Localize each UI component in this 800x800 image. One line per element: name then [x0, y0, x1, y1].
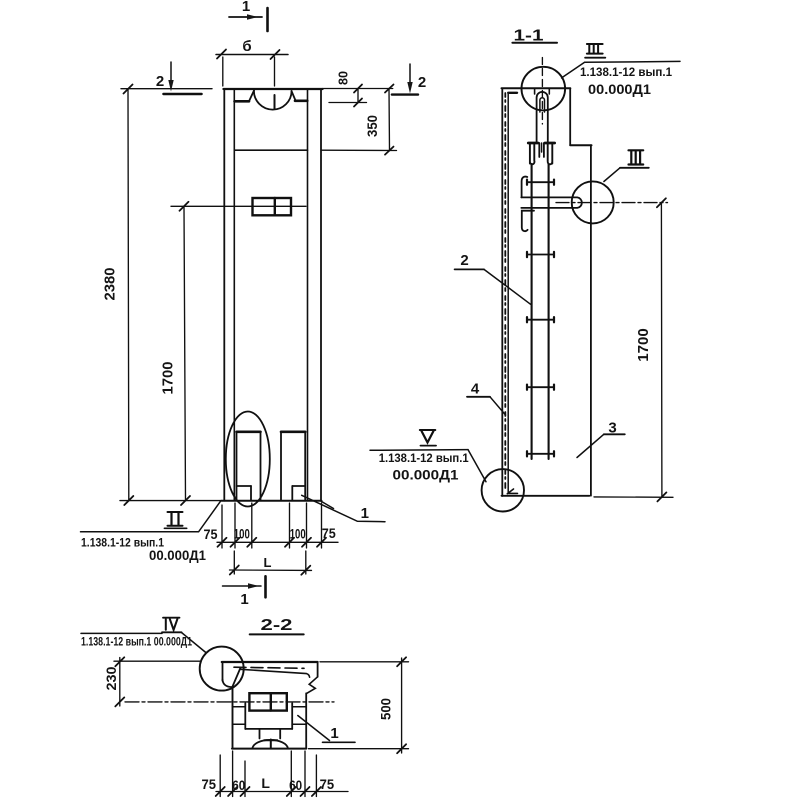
- svg-text:4: 4: [471, 381, 480, 398]
- svg-text:60: 60: [289, 777, 302, 793]
- dim 80: tick bottom: [354, 99, 362, 107]
- dim 350: tick top: [385, 85, 394, 93]
- detail circle IV: [200, 647, 244, 691]
- anchor middle strokes: [538, 143, 540, 157]
- panel top edge: [502, 87, 571, 89]
- loop leg marks: [259, 730, 261, 739]
- dim 500: bottom extension: [309, 748, 409, 750]
- label 1-1 underline: [512, 42, 557, 44]
- bottom dim row ticks: [218, 538, 327, 547]
- ladder rail left: [531, 164, 533, 459]
- svg-text:75: 75: [322, 525, 336, 541]
- anchor caps: [528, 142, 538, 145]
- svg-text:1: 1: [330, 725, 338, 742]
- dim 1700 right: bottom extension: [594, 496, 673, 498]
- leader 1 (2-2): underline: [323, 741, 356, 743]
- svg-text:1: 1: [361, 505, 369, 522]
- panel left wall inner top cap: [508, 92, 517, 94]
- top recess caret left: [249, 91, 254, 102]
- svg-text:00.000Д1: 00.000Д1: [393, 468, 460, 483]
- dim 2380: line: [127, 89, 130, 501]
- detail ellipse II: [226, 412, 270, 507]
- horizontal bar to III: [521, 197, 582, 208]
- svg-text:00.000Д1: 00.000Д1: [149, 548, 206, 563]
- label 2-2 underline: [250, 633, 304, 635]
- bottom slot right: right wall: [304, 432, 306, 501]
- bottom slot right: left wall: [280, 432, 282, 501]
- svg-text:2: 2: [460, 252, 468, 269]
- bottom slot right: step horiz: [292, 485, 305, 487]
- bottom slot left: step horiz: [237, 485, 252, 487]
- dim 1700 left: tick bottom: [181, 496, 190, 505]
- top recess band right: [295, 100, 307, 103]
- svg-text:L: L: [264, 555, 272, 570]
- center line 2-2: [125, 701, 334, 703]
- leader V diagonal: [468, 450, 486, 482]
- dim 500: line: [401, 658, 403, 753]
- leader 1 (left view): polyline: [302, 495, 385, 521]
- dim 1700 right: tick bottom: [657, 492, 666, 501]
- loop plate rect: [253, 198, 292, 215]
- panel right edge lower: [590, 145, 592, 496]
- column right flange inner: [307, 90, 309, 501]
- dimension b: tick right: [271, 50, 280, 59]
- detail circle V: [482, 469, 524, 511]
- dim 2380: top extension: [121, 88, 212, 90]
- dim 2380: tick top: [124, 85, 133, 94]
- dim 500: top extension: [320, 661, 409, 663]
- plate divider section: [270, 693, 272, 710]
- bottom dim row line: [217, 541, 338, 543]
- svg-text:75: 75: [320, 776, 335, 792]
- section right edge: [317, 662, 319, 677]
- svg-text:1.138.1-12 вып.1: 1.138.1-12 вып.1: [580, 65, 672, 79]
- dim 230: top extension: [114, 660, 200, 662]
- rung 5: [527, 451, 554, 456]
- dim 350: vertical: [388, 89, 391, 151]
- dim L: ticks: [230, 566, 239, 575]
- detail circle III right: [572, 181, 614, 223]
- extension 1700 cross line: [171, 205, 306, 207]
- center line horizontal: [556, 202, 668, 204]
- slot left section: top: [233, 706, 246, 708]
- column right flange outer: [320, 89, 322, 501]
- leader III top diagonal: [562, 62, 585, 78]
- svg-text:00.000Д1: 00.000Д1: [588, 82, 652, 97]
- label III top roman: [587, 44, 603, 54]
- top recess band left: [235, 100, 250, 103]
- svg-text:1700: 1700: [636, 328, 652, 362]
- stem left edge: [232, 687, 234, 749]
- svg-text:L: L: [261, 775, 270, 791]
- svg-text:60: 60: [232, 777, 245, 793]
- section bottom edge: [232, 748, 306, 750]
- svg-text:500: 500: [379, 698, 394, 720]
- leader 1 corner diagonal: [321, 501, 334, 509]
- rung 2: [527, 252, 554, 257]
- svg-text:2-2: 2-2: [261, 617, 293, 634]
- svg-text:75: 75: [202, 776, 217, 792]
- line 350 inside column: [235, 149, 308, 151]
- bottom dims 2-2: ticks: [216, 787, 321, 796]
- panel right edge upper: [569, 88, 571, 145]
- top recess center tick: [274, 95, 276, 109]
- dim 80: tick top: [354, 85, 362, 93]
- label V roman: [422, 431, 434, 443]
- dim 230: tick top: [115, 657, 124, 666]
- svg-text:230: 230: [104, 667, 119, 691]
- dim 80: vertical: [357, 89, 359, 103]
- top recess caret right: [292, 91, 296, 101]
- section mark 2 left: bar: [163, 93, 201, 95]
- dim 230: tick bottom: [115, 697, 124, 706]
- bottom arc: [252, 740, 288, 749]
- flange inner dashed: [234, 667, 304, 668]
- anchor right leg: [548, 143, 553, 164]
- top recess arc: [254, 91, 292, 110]
- column left flange inner: [233, 90, 235, 501]
- section mark 1 bottom: line: [223, 585, 262, 587]
- slot left section: bottom: [233, 723, 246, 725]
- label III right underline: [620, 167, 649, 169]
- slot right section: top: [292, 706, 306, 708]
- svg-text:75: 75: [204, 526, 218, 542]
- detail circle III top: [522, 67, 566, 111]
- hook lower: [522, 211, 534, 231]
- label V underline: [421, 445, 437, 447]
- section mark 1 top: arrow: [247, 14, 258, 20]
- recess vertical left: [534, 89, 536, 94]
- label II roman: [168, 512, 183, 526]
- dim 500: tick bottom: [397, 744, 406, 753]
- ladder rail right: [548, 164, 550, 459]
- dim 500: tick top: [397, 657, 406, 666]
- panel left wall outer: [501, 89, 503, 497]
- svg-text:100: 100: [290, 526, 306, 542]
- section top edge: [222, 661, 318, 663]
- label IV roman: [165, 619, 167, 630]
- panel bottom edge: [502, 495, 590, 497]
- recess vertical right: [548, 89, 550, 94]
- column top edge: [224, 88, 323, 90]
- svg-text:80: 80: [336, 71, 351, 85]
- section mark 2 left: vertical with arrow: [170, 62, 172, 84]
- dim 1700 right: tick top: [657, 198, 666, 207]
- bottom dim row extensions: [221, 505, 223, 548]
- T mark horizontal: [264, 739, 277, 741]
- section nose: [223, 668, 241, 687]
- column bottom edge: [222, 500, 322, 502]
- panel left wall inner: [507, 94, 509, 492]
- dimension b: extension left: [222, 57, 224, 86]
- panel step: [570, 144, 591, 146]
- T mark vertical: [270, 740, 272, 749]
- label II underline: [164, 527, 186, 529]
- middle lower horizontal: [245, 728, 292, 730]
- column left flange outer: [223, 89, 225, 501]
- bottom slot left: top: [237, 430, 261, 433]
- svg-text:350: 350: [365, 115, 380, 137]
- dim 1700 left: line: [184, 206, 186, 500]
- section mark 2 right: bar: [392, 93, 418, 95]
- label IV underline: [162, 631, 182, 633]
- stem right edge: [305, 693, 307, 748]
- leader III right: [604, 168, 620, 182]
- anchor left leg: [530, 143, 535, 164]
- dim L: line: [230, 569, 312, 571]
- rung 1: [527, 180, 554, 185]
- lifting loop inner: [540, 98, 545, 112]
- dim 350: tick bottom: [385, 147, 394, 155]
- bottom slot left: step vert: [250, 486, 252, 501]
- leader V line: [370, 449, 468, 452]
- section chamfer: [307, 677, 318, 694]
- dim 1700 right: line: [660, 203, 663, 497]
- bottom slot left: right wall: [260, 432, 262, 501]
- section mark 2 right: vertical with arrow: [409, 64, 411, 86]
- loop plate divider: [274, 198, 276, 215]
- svg-text:2380: 2380: [103, 268, 119, 301]
- slot left section: inner wall: [244, 703, 246, 729]
- section mark 1 bottom: tick: [264, 576, 267, 597]
- dim 2380: bottom extension: [120, 500, 222, 502]
- plate rect section: [249, 693, 286, 710]
- svg-text:2: 2: [156, 73, 164, 90]
- svg-text:1.138.1-12 вып.1 00.000Д1: 1.138.1-12 вып.1 00.000Д1: [81, 637, 192, 649]
- svg-text:1: 1: [242, 0, 250, 15]
- dim 230: line: [119, 658, 121, 707]
- corner angle mark in V: [507, 489, 517, 494]
- bottom slot right: top: [281, 430, 305, 433]
- slot right section: inner wall: [291, 703, 293, 729]
- leader III top line: [585, 60, 680, 63]
- rung 4: [527, 385, 554, 390]
- top edge extension right: [323, 88, 393, 90]
- extension 350 right: [321, 149, 397, 151]
- leader II polyline: [81, 501, 221, 532]
- dimension b: extension right: [274, 57, 276, 86]
- svg-text:1.138.1-12 вып.1: 1.138.1-12 вып.1: [379, 451, 469, 465]
- dimension b: line: [216, 54, 288, 56]
- svg-text:2: 2: [418, 74, 426, 91]
- label III right roman: [629, 150, 644, 164]
- slot right section: bottom: [292, 723, 306, 725]
- leader IV diagonal: [182, 633, 206, 653]
- bottom dims 2-2: line: [216, 791, 348, 793]
- svg-text:б: б: [242, 38, 251, 55]
- flange inner solid: [241, 669, 310, 677]
- dim 1700 left: tick top: [180, 202, 189, 211]
- section mark 1 bottom: arrow: [248, 583, 259, 589]
- bottom dims 2-2: extensions: [219, 755, 221, 797]
- dim L: extensions: [233, 551, 235, 574]
- leader IV line: [81, 632, 162, 634]
- panel wall texture dashes: [504, 93, 506, 491]
- lifting loop outer: [537, 92, 548, 143]
- dimension b: tick left: [217, 50, 226, 59]
- bottom slot right: step vert: [291, 486, 293, 501]
- leader 1 (2-2): diagonal: [298, 716, 330, 741]
- dim 2380: tick bottom: [124, 496, 133, 505]
- svg-text:1700: 1700: [161, 362, 177, 395]
- rung 3: [527, 317, 554, 322]
- label III top underline: [585, 57, 605, 59]
- section left edge: [222, 662, 224, 681]
- section mark 1 top: tick: [266, 8, 269, 31]
- hook upper: [522, 177, 528, 198]
- svg-text:1: 1: [240, 591, 248, 608]
- loop center dash: [541, 58, 543, 125]
- bottom slot left: left wall: [236, 432, 238, 501]
- svg-text:100: 100: [234, 526, 250, 542]
- section mark 1 top: line: [229, 16, 262, 18]
- dim 80: lower line: [329, 102, 367, 104]
